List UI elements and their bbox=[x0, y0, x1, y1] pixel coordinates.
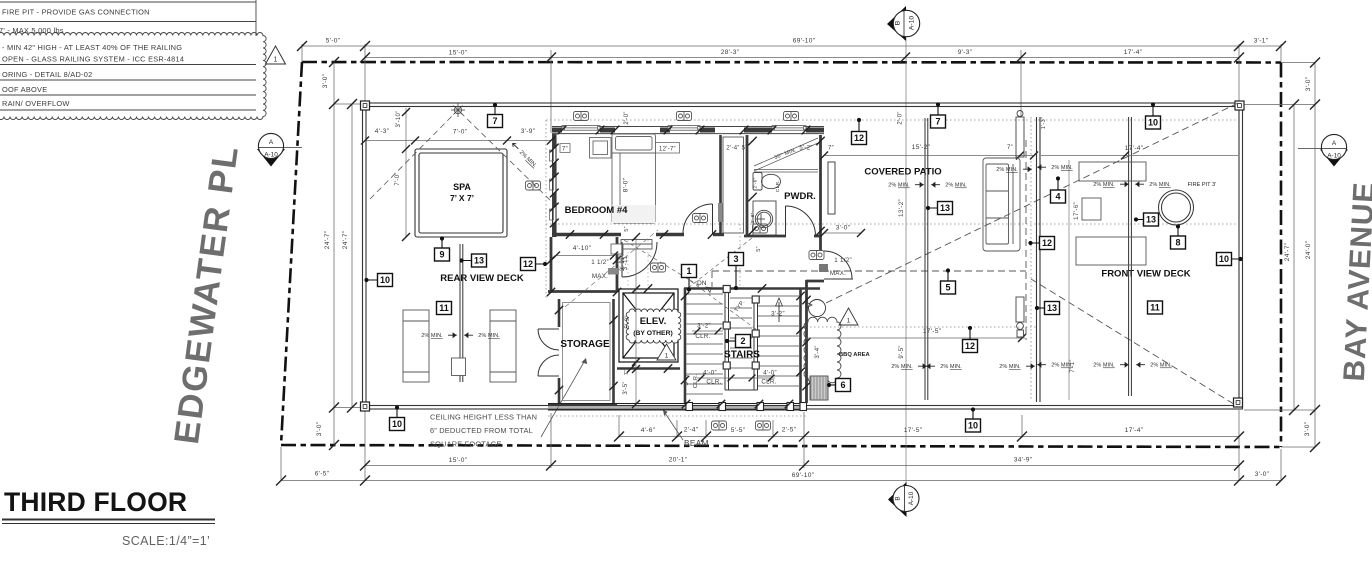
svg-text:2% MIN.: 2% MIN. bbox=[1150, 363, 1172, 369]
svg-text:17'-5”: 17'-5” bbox=[923, 328, 941, 335]
svg-text:8'-0”: 8'-0” bbox=[623, 178, 630, 193]
deck corner posts bbox=[361, 101, 370, 110]
up arrow right flight bbox=[778, 302, 780, 322]
wall below elevator (7 inch) bbox=[617, 367, 680, 370]
svg-text:12: 12 bbox=[1042, 238, 1052, 248]
bedroom door (into bedroom) bbox=[683, 204, 713, 234]
svg-text:2% MIN.: 2% MIN. bbox=[421, 333, 443, 339]
svg-text:10: 10 bbox=[1219, 254, 1229, 264]
keynote tag 4 bbox=[1051, 176, 1066, 203]
svg-text:1 1/2”: 1 1/2” bbox=[834, 257, 852, 264]
svg-text:2: 2 bbox=[740, 336, 745, 346]
dn travel dashed bbox=[624, 238, 757, 330]
stair rails bbox=[725, 288, 758, 390]
revision triangle 1 (bbq) bbox=[839, 308, 858, 325]
svg-text:5: 5 bbox=[945, 283, 950, 293]
front deck dim line vertical bbox=[1068, 160, 1070, 400]
3-0 door dim bbox=[824, 232, 861, 234]
svg-text:A: A bbox=[1332, 140, 1337, 147]
svg-text:2'-4”: 2'-4” bbox=[684, 427, 699, 434]
svg-text:5”: 5” bbox=[756, 246, 762, 252]
hall step bbox=[611, 244, 623, 254]
section marker B/A-10 (bottom) bbox=[888, 482, 919, 517]
window tag 12-7 (boxed) bbox=[656, 143, 680, 154]
bedroom bottom wall bbox=[552, 233, 724, 236]
keynote tag 2 bbox=[725, 335, 751, 348]
svg-text:A-10: A-10 bbox=[1327, 153, 1341, 160]
keynote tag 12 bbox=[521, 258, 548, 271]
ticks misc walls bbox=[748, 137, 756, 145]
svg-text:17'-6”: 17'-6” bbox=[1073, 202, 1080, 220]
patio rail post bbox=[925, 118, 928, 400]
hall desk/shelf bbox=[621, 240, 652, 250]
bed bbox=[612, 134, 656, 223]
slope label 2% MIN. bbox=[888, 183, 923, 189]
keynote tag 9 bbox=[435, 236, 450, 261]
svg-text:3: 3 bbox=[733, 254, 738, 264]
property line (right) bbox=[1280, 63, 1283, 448]
svg-text:15'-0”: 15'-0” bbox=[449, 457, 467, 464]
svg-text:ELEV.: ELEV. bbox=[640, 316, 667, 327]
lounge chair 1 bbox=[403, 310, 429, 382]
svg-text:A-10: A-10 bbox=[909, 16, 916, 31]
svg-text:9: 9 bbox=[439, 250, 444, 260]
slope label 2% MIN. bbox=[1038, 363, 1073, 369]
svg-text:3'-5”: 3'-5” bbox=[623, 381, 629, 394]
hall dim 4-10 bbox=[556, 255, 614, 257]
svg-text:6: 6 bbox=[840, 380, 845, 390]
svg-text:9'-5”: 9'-5” bbox=[899, 345, 905, 358]
patio door at powder bbox=[824, 251, 853, 279]
svg-text:3'-11”: 3'-11” bbox=[620, 255, 626, 272]
keynote tag 6 bbox=[827, 379, 851, 392]
svg-text:2% MIN.: 2% MIN. bbox=[1093, 363, 1115, 369]
bottom dim rows bbox=[281, 408, 1281, 481]
section marker A/A-10 (right) bbox=[1298, 134, 1348, 166]
svg-text:1: 1 bbox=[665, 353, 669, 360]
svg-text:- MIN 42" HIGH - AT LEAST 40%: - MIN 42" HIGH - AT LEAST 40% OF THE RAI… bbox=[2, 43, 182, 52]
svg-text:11: 11 bbox=[1150, 303, 1160, 313]
svg-text:3'-0”: 3'-0” bbox=[1304, 422, 1311, 437]
svg-text:5”: 5” bbox=[624, 226, 630, 232]
keynote tag 5 bbox=[941, 268, 956, 294]
svg-text:69'-10”: 69'-10” bbox=[792, 472, 814, 479]
keynote tag 10 bbox=[364, 274, 392, 287]
svg-text:PWDR.: PWDR. bbox=[784, 191, 816, 202]
slope label 2% MIN. bbox=[465, 333, 500, 339]
elevator side dims bbox=[635, 237, 637, 404]
svg-text:3'-2”: 3'-2” bbox=[771, 311, 785, 318]
elevator shaft bbox=[619, 289, 678, 362]
planter 2 bbox=[1076, 237, 1146, 265]
svg-text:24'-7”: 24'-7” bbox=[324, 231, 331, 249]
window units top wall bbox=[562, 126, 806, 131]
deck perimeter (double line) bbox=[363, 103, 1243, 409]
grill (hatched) bbox=[810, 376, 828, 400]
keynote tag 11 bbox=[437, 302, 452, 315]
svg-text:7”: 7” bbox=[828, 146, 834, 152]
ceiling fixture bbox=[526, 181, 541, 190]
section marker A/A-10 (left) bbox=[257, 133, 302, 166]
svg-text:10: 10 bbox=[968, 421, 978, 431]
svg-text:SQUARE FOOTAGE: SQUARE FOOTAGE bbox=[430, 440, 502, 449]
window sills left wall bbox=[550, 150, 554, 220]
svg-text:RAIN/ OVERFLOW: RAIN/ OVERFLOW bbox=[2, 99, 70, 108]
svg-text:STORAGE: STORAGE bbox=[560, 339, 610, 350]
svg-text:STAIRS: STAIRS bbox=[724, 350, 760, 361]
svg-text:13: 13 bbox=[1146, 215, 1156, 225]
keynote tag 3 bbox=[729, 253, 744, 291]
svg-text:SCALE:1/4”=1’: SCALE:1/4”=1’ bbox=[122, 534, 210, 548]
notes table bbox=[0, 0, 256, 110]
svg-text:12: 12 bbox=[854, 133, 864, 143]
stair treads right flight bbox=[758, 296, 799, 386]
front deck top dim 17-4 bbox=[1041, 155, 1238, 157]
svg-text:A: A bbox=[269, 139, 274, 146]
stair treads middle flight bbox=[730, 298, 752, 378]
keynote tag 7 bbox=[931, 102, 946, 128]
svg-text:7'-0”: 7'-0” bbox=[453, 129, 468, 136]
svg-text:4'-0”: 4'-0” bbox=[703, 370, 717, 377]
ceiling fixture bbox=[753, 224, 768, 233]
svg-text:4: 4 bbox=[1055, 192, 1060, 202]
svg-text:7: 7 bbox=[935, 117, 940, 127]
keynote tag 12 bbox=[1028, 237, 1054, 250]
dresser left of bed bbox=[590, 138, 612, 159]
stair enclosure walls bbox=[684, 288, 820, 404]
svg-text:3'-0”: 3'-0” bbox=[1255, 471, 1270, 478]
svg-text:A-10: A-10 bbox=[908, 491, 915, 505]
stair treads left flight bbox=[687, 294, 724, 394]
keynote tag 13 bbox=[459, 254, 486, 267]
svg-text:4'-6”: 4'-6” bbox=[641, 427, 656, 434]
svg-text:24'-0”: 24'-0” bbox=[1305, 241, 1312, 259]
keynote tag 10 bbox=[1146, 102, 1161, 129]
slope label 2% MIN. bbox=[999, 364, 1034, 370]
svg-text:7”: 7” bbox=[562, 147, 568, 153]
svg-text:7’ X 7’: 7’ X 7’ bbox=[450, 193, 474, 203]
svg-text:15'-0”: 15'-0” bbox=[449, 50, 467, 57]
svg-text:2% MIN.: 2% MIN. bbox=[1093, 182, 1115, 188]
keynote tag 13 bbox=[1035, 302, 1060, 315]
svg-text:4'-0”: 4'-0” bbox=[763, 370, 777, 377]
hall walls below bedroom bbox=[548, 237, 617, 292]
svg-text:1'-3”: 1'-3” bbox=[1041, 117, 1047, 129]
toilet bbox=[753, 173, 781, 191]
svg-text:3'-0”: 3'-0” bbox=[322, 74, 329, 89]
svg-text:5'-5”: 5'-5” bbox=[731, 427, 746, 434]
section cut line B bbox=[905, 38, 907, 488]
svg-text:17'-4”: 17'-4” bbox=[1125, 427, 1143, 434]
keynote tag 1 bbox=[682, 265, 697, 292]
svg-text:1: 1 bbox=[686, 266, 691, 276]
svg-text:13'-2”: 13'-2” bbox=[898, 199, 905, 217]
svg-text:FIRE PIT - PROVIDE GAS CONNECT: FIRE PIT - PROVIDE GAS CONNECTION bbox=[2, 8, 150, 17]
door jamb posts on patio/deck boundary bbox=[1016, 111, 1024, 338]
ceiling fixture bbox=[574, 112, 589, 121]
dashed guide lines bbox=[712, 103, 1238, 406]
svg-text:1: 1 bbox=[274, 57, 278, 64]
svg-text:1 1/2”: 1 1/2” bbox=[591, 259, 609, 266]
svg-text:BEDROOM #4: BEDROOM #4 bbox=[565, 205, 629, 216]
ceiling fixture bbox=[651, 263, 666, 272]
svg-text:CLR.: CLR. bbox=[695, 333, 710, 340]
lounge chair 2 bbox=[490, 310, 516, 382]
svg-text:1: 1 bbox=[847, 318, 851, 325]
svg-text:FIRE PIT 3’: FIRE PIT 3’ bbox=[1188, 182, 1217, 188]
svg-text:REAR VIEW DECK: REAR VIEW DECK bbox=[440, 273, 524, 284]
svg-text:12'-7”: 12'-7” bbox=[659, 147, 676, 153]
svg-text:OPEN - GLASS RAILING SYSTEM -: OPEN - GLASS RAILING SYSTEM - ICC ESR-48… bbox=[2, 55, 184, 64]
revision triangle 1 (elevator) bbox=[657, 344, 676, 360]
svg-text:6” DEDUCTED FROM TOTAL: 6” DEDUCTED FROM TOTAL bbox=[430, 426, 533, 435]
section marker B/A-10 (top) bbox=[887, 6, 920, 41]
ceiling fixture bbox=[693, 214, 708, 223]
svg-text:B: B bbox=[895, 20, 902, 25]
svg-text:MAX.: MAX. bbox=[592, 273, 608, 280]
svg-text:2% MIN.: 2% MIN. bbox=[1051, 363, 1073, 369]
keynote tag 10 bbox=[390, 405, 405, 430]
svg-text:10: 10 bbox=[392, 419, 402, 429]
svg-text:2% MIN.: 2% MIN. bbox=[1149, 182, 1171, 188]
ticks on top strip bbox=[558, 126, 567, 135]
left vertical dim lines 24'-7" bbox=[334, 62, 365, 445]
sofa bbox=[983, 158, 1020, 251]
svg-text:7: 7 bbox=[492, 116, 497, 126]
revision triangle 1 (notes) bbox=[266, 46, 286, 64]
svg-text:6'-5”: 6'-5” bbox=[315, 471, 330, 478]
ceiling fixture bbox=[756, 421, 771, 430]
bbq revision cloud bbox=[804, 317, 841, 383]
svg-text:5'-2”: 5'-2” bbox=[799, 146, 812, 152]
clear dim line stairs bbox=[692, 330, 723, 332]
svg-text:3'-0”: 3'-0” bbox=[836, 225, 851, 232]
keynote tag 12 bbox=[852, 118, 867, 145]
planter 1 bbox=[1079, 162, 1146, 181]
svg-text:20'-1”: 20'-1” bbox=[669, 457, 687, 464]
keynote tag 10 bbox=[1217, 253, 1243, 266]
bbq sink bbox=[809, 300, 826, 317]
storage double doors bbox=[538, 329, 559, 376]
svg-text:MAX.: MAX. bbox=[830, 270, 846, 277]
dim row A (top): 5'-0" / 69'-10" / 3'-1" bbox=[302, 44, 1281, 133]
slope label 2% MIN. bbox=[1137, 363, 1172, 369]
svg-text:69'-10”: 69'-10” bbox=[793, 38, 815, 45]
closet between bedroom and powder bbox=[723, 137, 744, 233]
svg-text:2% MIN.: 2% MIN. bbox=[945, 183, 967, 189]
svg-text:17'-4”: 17'-4” bbox=[1125, 145, 1143, 152]
svg-text:4'-3”: 4'-3” bbox=[375, 128, 390, 135]
svg-text:2% MIN.: 2% MIN. bbox=[478, 333, 500, 339]
patio dim 15-2 bbox=[824, 155, 1034, 157]
svg-text:2% MIN.: 2% MIN. bbox=[999, 364, 1021, 370]
slope label 2% MIN. bbox=[421, 333, 456, 339]
powder sloped ceiling hatch bbox=[754, 138, 818, 172]
ceiling fixture bbox=[677, 112, 692, 121]
svg-text:5'-0”: 5'-0” bbox=[326, 38, 341, 45]
front deck divider rail bbox=[1129, 117, 1132, 396]
svg-text:2% MIN.: 2% MIN. bbox=[940, 364, 962, 370]
svg-text:13: 13 bbox=[1047, 303, 1057, 313]
slope label 2% MIN. bbox=[891, 364, 926, 370]
svg-text:FRONT VIEW DECK: FRONT VIEW DECK bbox=[1101, 269, 1190, 280]
spa top dims bbox=[365, 140, 551, 142]
svg-text:BBQ AREA: BBQ AREA bbox=[839, 352, 871, 358]
window tag 7 (boxed) bbox=[560, 144, 570, 153]
ceiling height note bbox=[430, 413, 537, 449]
svg-text:3'-9”: 3'-9” bbox=[521, 128, 536, 135]
svg-text:3'-0”: 3'-0” bbox=[1305, 77, 1312, 92]
svg-text:DN: DN bbox=[697, 280, 707, 287]
svg-text:CLR.: CLR. bbox=[706, 379, 721, 386]
2% min on slope bbox=[510, 142, 538, 169]
hall dashed diagonal bbox=[565, 230, 658, 307]
storage inner face bbox=[563, 303, 611, 401]
house left wall with windows bbox=[553, 134, 556, 237]
svg-text:24'-7”: 24'-7” bbox=[1284, 243, 1291, 261]
svg-text:3'-6”: 3'-6” bbox=[684, 373, 690, 386]
revision cloud around notes bbox=[0, 32, 266, 119]
spa slope dashed lines bbox=[370, 112, 551, 201]
svg-text:28'-3”: 28'-3” bbox=[721, 49, 739, 56]
svg-text:8: 8 bbox=[1175, 238, 1180, 248]
svg-text:2% MIN.: 2% MIN. bbox=[996, 167, 1018, 173]
svg-text:2% MIN.: 2% MIN. bbox=[888, 183, 910, 189]
svg-text:7'-0”: 7'-0” bbox=[395, 172, 401, 185]
bedroom right wall bbox=[719, 135, 722, 234]
patio dim 17-5 bbox=[806, 337, 1025, 339]
stair newel posts bbox=[723, 286, 730, 293]
keynote tag 11 bbox=[1148, 301, 1163, 314]
svg-text:2'-6”: 2'-6” bbox=[753, 177, 759, 188]
keynote tag 13 bbox=[1134, 213, 1159, 226]
property line (top) bbox=[302, 61, 1281, 64]
powder door bbox=[786, 206, 816, 236]
right vertical dim lines 24'-7" / 24'-0" bbox=[1244, 62, 1315, 447]
svg-text:17'-4”: 17'-4” bbox=[1124, 49, 1142, 56]
svg-text:CEILING HEIGHT LESS THAN: CEILING HEIGHT LESS THAN bbox=[430, 413, 537, 422]
keynote tag 13 bbox=[926, 202, 953, 215]
svg-text:12: 12 bbox=[965, 341, 975, 351]
svg-text:5'-9”: 5'-9” bbox=[625, 315, 631, 328]
powder room walls bbox=[744, 135, 821, 251]
svg-text:2% MIN.: 2% MIN. bbox=[891, 364, 913, 370]
svg-text:2'-0”: 2'-0” bbox=[898, 111, 904, 124]
svg-text:24'-7”: 24'-7” bbox=[342, 231, 349, 249]
powder sink bbox=[753, 201, 776, 235]
svg-text:A-10: A-10 bbox=[264, 152, 278, 159]
slope label 2% MIN. bbox=[1093, 182, 1128, 188]
slope label 2% MIN. bbox=[927, 364, 962, 370]
keynote tag 8 bbox=[1171, 224, 1186, 249]
patio-side wall (right of powder) bbox=[806, 280, 824, 403]
property line (left, slanted) bbox=[281, 62, 302, 445]
svg-text:10: 10 bbox=[380, 275, 390, 285]
svg-text:CLR.: CLR. bbox=[775, 180, 781, 192]
svg-text:9'-3”: 9'-3” bbox=[958, 49, 973, 56]
svg-text:3'-4”: 3'-4” bbox=[815, 345, 821, 358]
svg-text:3'-10”: 3'-10” bbox=[396, 111, 402, 128]
svg-text:3'-0”: 3'-0” bbox=[316, 422, 323, 437]
svg-text:4'-10”: 4'-10” bbox=[573, 245, 591, 252]
slope label 2% MIN. bbox=[1038, 165, 1073, 171]
svg-text:SPA: SPA bbox=[453, 182, 471, 192]
slope label 2% MIN. bbox=[996, 167, 1031, 173]
svg-text:2'-5”: 2'-5” bbox=[782, 427, 797, 434]
svg-text:7' - MAX 5,000 lbs: 7' - MAX 5,000 lbs bbox=[0, 26, 64, 35]
ceiling fixture bbox=[712, 421, 727, 430]
house bottom wall with rail windows bbox=[548, 404, 806, 411]
svg-text:(BY OTHER): (BY OTHER) bbox=[633, 330, 673, 337]
ELEV. (BY OTHER) cloud bbox=[626, 309, 681, 343]
svg-text:10: 10 bbox=[1148, 118, 1158, 128]
ceiling fixture bbox=[784, 112, 799, 121]
hall door bbox=[622, 242, 657, 277]
svg-text:7”: 7” bbox=[1007, 145, 1013, 151]
slope label 2% MIN. bbox=[1093, 363, 1128, 369]
svg-text:34'-9”: 34'-9” bbox=[1014, 457, 1032, 464]
keynote tag 12 bbox=[963, 326, 978, 353]
svg-text:OOF ABOVE: OOF ABOVE bbox=[2, 85, 47, 94]
svg-text:12: 12 bbox=[523, 259, 533, 269]
svg-text:THIRD FLOOR: THIRD FLOOR bbox=[4, 487, 187, 517]
svg-text:2'-0”: 2'-0” bbox=[624, 111, 630, 124]
svg-text:BEAM: BEAM bbox=[684, 439, 709, 448]
drain symbol bbox=[451, 103, 465, 117]
svg-text:13: 13 bbox=[940, 203, 950, 213]
storage room walls bbox=[548, 299, 617, 405]
svg-text:3'-1”: 3'-1” bbox=[1254, 38, 1269, 45]
rear deck side table bbox=[452, 358, 466, 376]
tv panel bbox=[828, 162, 835, 214]
spa bbox=[415, 149, 507, 237]
patio/front-deck boundary wall bbox=[1037, 117, 1041, 402]
fire pit bbox=[1159, 190, 1194, 225]
slope label 2% MIN. bbox=[932, 183, 967, 189]
svg-text:2% MIN.: 2% MIN. bbox=[1051, 165, 1073, 171]
roof outline dotted bbox=[546, 117, 1239, 416]
rear deck divider rail bbox=[460, 244, 463, 382]
slope label 2% MIN. bbox=[1136, 182, 1171, 188]
svg-text:15'-2”: 15'-2” bbox=[912, 144, 930, 151]
svg-text:13: 13 bbox=[474, 256, 484, 266]
svg-text:2'-4” 5”: 2'-4” 5” bbox=[726, 146, 747, 152]
svg-text:7”: 7” bbox=[624, 370, 630, 376]
svg-text:17'-5”: 17'-5” bbox=[904, 427, 922, 434]
svg-text:ORING - DETAIL 8/AD-02: ORING - DETAIL 8/AD-02 bbox=[2, 70, 93, 79]
svg-text:11: 11 bbox=[439, 303, 449, 313]
svg-text:COVERED PATIO: COVERED PATIO bbox=[864, 167, 941, 178]
svg-text:2'-8”: 2'-8” bbox=[750, 212, 756, 223]
keynote tag 10 bbox=[966, 407, 981, 432]
small planter bbox=[1082, 198, 1101, 220]
ceiling fixture bbox=[809, 251, 824, 260]
property line (bottom) bbox=[281, 445, 1281, 447]
svg-text:B: B bbox=[895, 496, 902, 500]
keynote tag 7 bbox=[488, 103, 503, 128]
house top wall (bedroom/pwdr) with windows bbox=[552, 127, 824, 134]
